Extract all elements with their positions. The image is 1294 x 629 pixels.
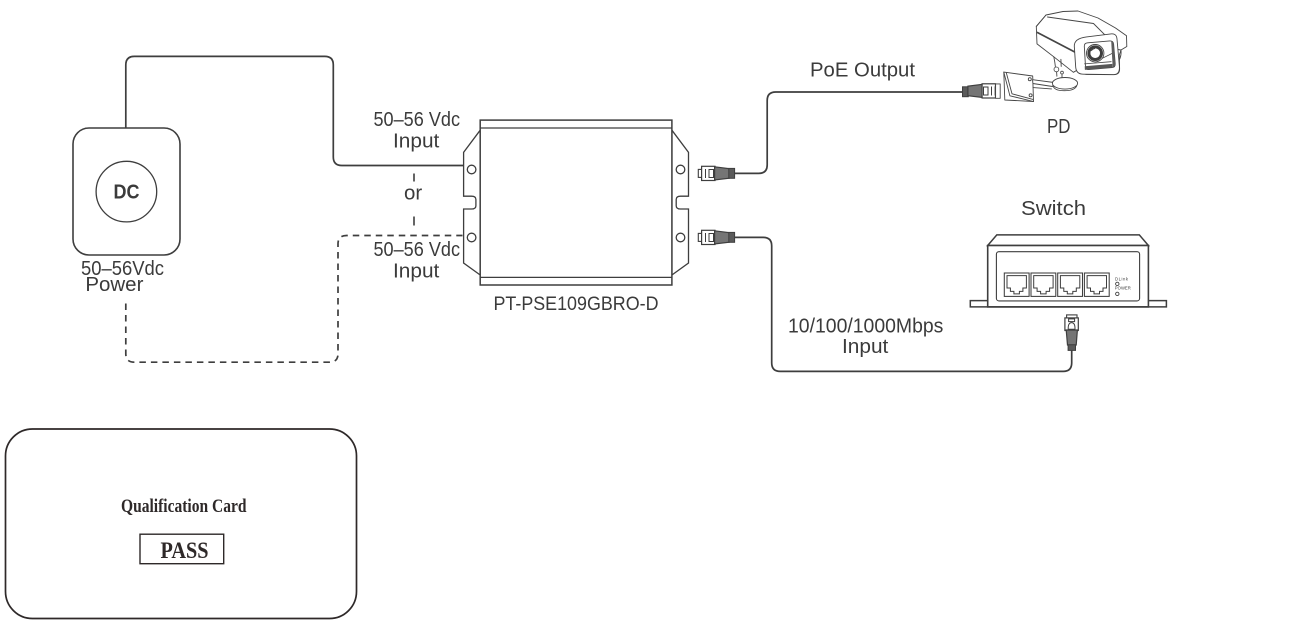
svg-text:Input: Input xyxy=(393,130,440,152)
svg-text:Switch: Switch xyxy=(1021,198,1086,220)
svg-text:or: or xyxy=(404,183,423,205)
svg-text:50–56 Vdc: 50–56 Vdc xyxy=(374,239,461,261)
switch chassis xyxy=(970,235,1166,307)
injector screw holes xyxy=(467,165,684,242)
switch LEDs xyxy=(1115,277,1131,296)
svg-text:10/100/1000Mbps: 10/100/1000Mbps xyxy=(788,316,943,338)
svg-text:Input: Input xyxy=(842,336,889,358)
wire: injector top port to camera xyxy=(735,92,963,173)
camera lens xyxy=(1087,45,1104,62)
svg-text:Power: Power xyxy=(85,274,143,296)
wire solid: DC adapter to injector top input xyxy=(126,56,464,165)
RJ45 connector at injector top port xyxy=(698,166,734,180)
or tick marks xyxy=(413,174,415,226)
DC power adapter box xyxy=(73,128,180,255)
svg-text:50–56 Vdc: 50–56 Vdc xyxy=(374,109,461,131)
PoE injector PT-PSE109GBRO-D body xyxy=(464,120,689,285)
RJ45 connector at injector bottom port xyxy=(698,230,734,244)
camera bracket cable stub xyxy=(996,84,1001,98)
qualification card xyxy=(6,429,357,619)
svg-text:PoE Output: PoE Output xyxy=(810,59,915,81)
RJ45 connector at camera end xyxy=(963,84,999,98)
camera shield edges xyxy=(1048,17,1122,64)
camera head silhouette xyxy=(1036,11,1127,75)
svg-text:POWER: POWER xyxy=(1115,286,1131,291)
wire: injector bottom port to switch xyxy=(735,237,1072,371)
camera pivot base xyxy=(1052,78,1077,90)
svg-text:Qualification Card: Qualification Card xyxy=(121,496,247,517)
wire dashed: DC adapter to injector bottom input xyxy=(126,236,463,363)
svg-text:DLink: DLink xyxy=(1115,277,1129,282)
camera mount neck xyxy=(1054,57,1062,78)
camera PD xyxy=(996,11,1127,102)
RJ45 connector at switch (pointing up) xyxy=(1065,315,1078,351)
svg-text:Input: Input xyxy=(393,260,440,282)
switch RJ45 ports xyxy=(1004,273,1109,296)
svg-text:PASS: PASS xyxy=(161,538,209,563)
svg-text:PT-PSE109GBRO-D: PT-PSE109GBRO-D xyxy=(494,293,659,315)
camera bracket arm xyxy=(1033,80,1054,87)
camera front bezel xyxy=(1074,34,1119,75)
svg-text:PD: PD xyxy=(1047,116,1071,138)
PASS box xyxy=(140,534,224,564)
svg-text:DC: DC xyxy=(114,182,140,204)
camera bracket wall plate xyxy=(1004,72,1034,101)
